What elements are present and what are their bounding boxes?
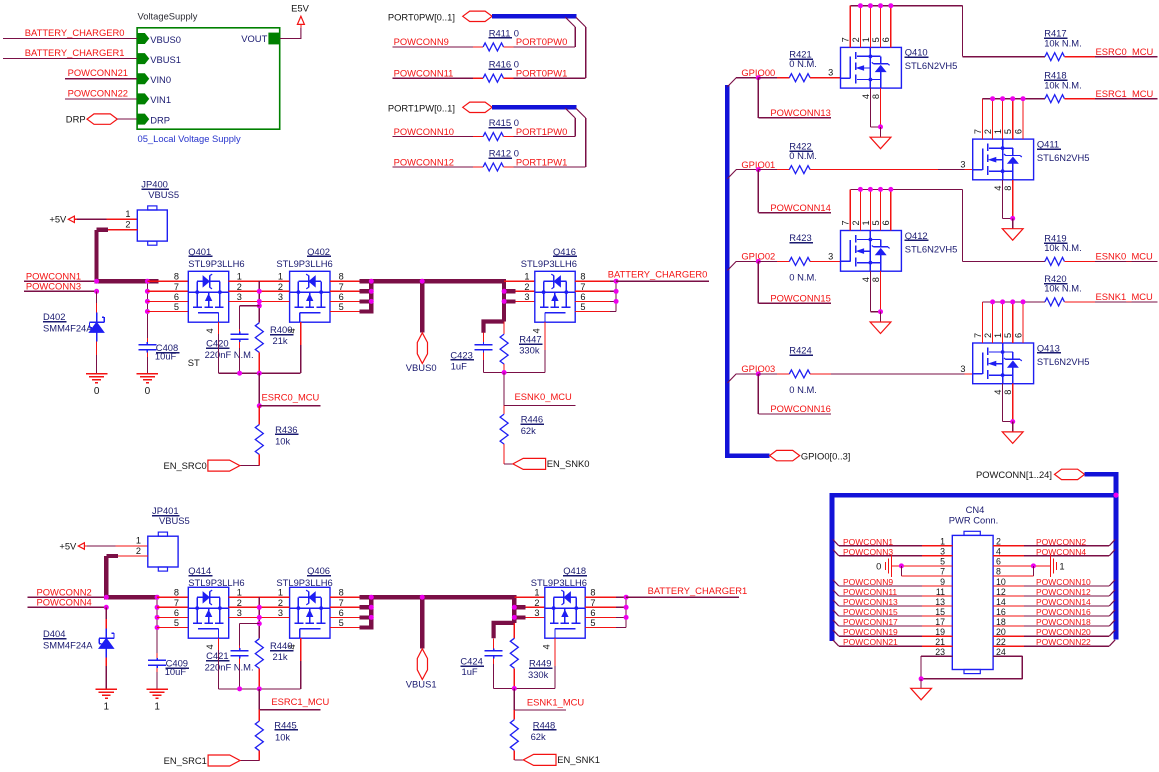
svg-text:3: 3	[237, 292, 242, 302]
svg-text:2: 2	[983, 333, 993, 338]
svg-text:VoltageSupply: VoltageSupply	[138, 11, 198, 22]
wire D402 to ground	[96, 341, 98, 355]
ground 1 under C409	[146, 688, 167, 690]
svg-text:POWCONN3: POWCONN3	[843, 547, 893, 557]
svg-text:20: 20	[996, 627, 1006, 637]
wire BATTERY_CHARGER0 to VBUS0	[3, 38, 137, 40]
svg-text:1: 1	[940, 537, 945, 547]
svg-text:1: 1	[278, 588, 283, 598]
svg-text:21: 21	[935, 637, 945, 647]
junction at source of Q411	[1010, 216, 1015, 221]
junction mid C421 tap	[257, 621, 262, 626]
svg-text:C423: C423	[450, 349, 472, 360]
sink rail ESNK0	[484, 372, 545, 374]
hierarchical block VoltageSupply (05_Local Voltage Supply)	[137, 28, 280, 129]
pins 4 and 8 of Q412	[869, 271, 871, 312]
svg-text:6: 6	[339, 292, 344, 302]
block input pin DRP	[138, 114, 149, 124]
svg-text:2: 2	[278, 598, 283, 608]
svg-text:10uF: 10uF	[165, 666, 187, 677]
pins 4 and 8 of Q410	[869, 88, 871, 127]
wire CN4 pin 9 POWCONN9	[922, 585, 952, 587]
svg-text:17: 17	[935, 617, 945, 627]
svg-text:14: 14	[996, 597, 1006, 607]
svg-text:5: 5	[174, 302, 179, 312]
junction on drain line of Q413	[1021, 299, 1026, 304]
wire column to Q414 pin 8	[157, 596, 188, 598]
wire column to Q414 pin 6	[157, 616, 188, 618]
junction mid pin2 c2	[257, 605, 262, 610]
capacitor C424 1uF	[493, 648, 495, 651]
svg-text:R415: R415	[489, 117, 511, 128]
svg-text:STL9P3LLH6: STL9P3LLH6	[188, 577, 244, 588]
wire BATTERY_CHARGER0	[616, 280, 709, 282]
svg-text:0 N.M.: 0 N.M.	[789, 272, 817, 283]
wire to ESNK1_MCU	[513, 689, 515, 710]
wire column to Q414 pin 5	[157, 627, 188, 629]
svg-text:SMM4F24A: SMM4F24A	[43, 323, 93, 334]
svg-text:2: 2	[996, 537, 1001, 547]
svg-text:POWCONN10: POWCONN10	[1036, 577, 1091, 587]
pin 4 of Q416	[544, 322, 546, 350]
capacitor C421 220nF N.M.	[239, 648, 241, 651]
junction on drain line of Q410	[858, 3, 863, 8]
svg-text:POWCONN13: POWCONN13	[843, 597, 898, 607]
wire ESNK0_MCU	[1064, 260, 1095, 262]
junction output column c2 pin6	[369, 615, 374, 620]
svg-text:2: 2	[125, 220, 130, 230]
svg-text:7: 7	[580, 282, 585, 292]
svg-text:0 N.M.: 0 N.M.	[789, 58, 817, 69]
svg-text:8: 8	[174, 272, 179, 282]
svg-text:10k N.M.: 10k N.M.	[1044, 37, 1082, 48]
wire ESRC1_MCU	[1064, 98, 1095, 100]
junction column row 3	[145, 299, 150, 304]
wire tie 1 to pin 8	[1032, 566, 1034, 576]
bus port PORT1PW[0..1]	[463, 102, 492, 112]
junction POWCONN2 column	[104, 595, 109, 600]
junction Q416 pin2	[502, 289, 507, 294]
pin 4 of Q418	[554, 638, 556, 666]
wire gate rail ESRC1	[219, 688, 301, 690]
power symbol VBUS0	[417, 333, 427, 364]
svg-text:4: 4	[205, 644, 215, 649]
svg-text:R448: R448	[533, 719, 555, 730]
svg-text:6: 6	[996, 557, 1001, 567]
svg-text:D404: D404	[43, 628, 65, 639]
junction on drain line of Q410	[888, 3, 893, 8]
svg-text:16: 16	[996, 607, 1006, 617]
wire CN4 pin 22 POWCONN22	[993, 645, 1024, 647]
svg-text:VBUS5: VBUS5	[148, 189, 179, 200]
power symbol VBUS1	[417, 649, 427, 680]
svg-text:10k N.M.: 10k N.M.	[1044, 283, 1082, 294]
wire CN4 pin 16 POWCONN16	[993, 615, 1024, 617]
thick elbow to C424	[494, 623, 515, 638]
svg-text:STL6N2VH5: STL6N2VH5	[905, 243, 958, 254]
wire column to Q401 pin 8	[147, 280, 188, 282]
port EN_SNK1	[523, 754, 556, 765]
wire CN4 pin 10 POWCONN10	[993, 585, 1024, 587]
svg-text:22: 22	[996, 637, 1006, 647]
ground under CN4	[911, 688, 932, 700]
svg-text:R423: R423	[789, 232, 811, 243]
wire to R445	[258, 710, 260, 721]
wire tie 0 to pin 7	[900, 566, 902, 576]
svg-text:E5V: E5V	[291, 3, 309, 14]
wire ESRC0_MCU	[1064, 56, 1095, 58]
svg-text:6: 6	[590, 608, 595, 618]
wire CN4 pin 20 POWCONN20	[993, 635, 1024, 637]
wire mid node vertical to R400	[258, 281, 260, 323]
svg-text:DRP: DRP	[150, 114, 170, 125]
wire GPIO01 to resistor	[758, 169, 777, 171]
wire POWCONN4	[28, 606, 107, 608]
wires Q414 to Q406 pins 1 2 3	[229, 596, 290, 598]
svg-text:6: 6	[339, 608, 344, 618]
wire CN4 pin 13 POWCONN13	[922, 605, 952, 607]
svg-text:BATTERY_CHARGER1: BATTERY_CHARGER1	[25, 47, 125, 58]
svg-text:10k N.M.: 10k N.M.	[1044, 79, 1082, 90]
svg-text:1: 1	[136, 536, 141, 546]
wires to Q418 pins 2 3	[526, 606, 545, 608]
port EN_SNK0	[513, 458, 546, 469]
wire JP400 pin 2 thick power	[108, 229, 137, 231]
junction on drain line of Q412	[878, 187, 883, 192]
svg-text:10uF: 10uF	[155, 350, 177, 361]
block input pin VIN1	[138, 94, 149, 104]
pins 4 and 8 of Q411	[1002, 180, 1004, 219]
wire ESRC0_MCU	[259, 405, 320, 407]
net tie 1 at CN4 pins 6 8	[1049, 555, 1051, 577]
node GPIO01	[756, 167, 761, 172]
svg-text:3: 3	[534, 608, 539, 618]
svg-text:ESRC0_MCU: ESRC0_MCU	[1096, 46, 1154, 57]
svg-text:Q418: Q418	[563, 565, 586, 576]
svg-text:8: 8	[174, 588, 179, 598]
svg-text:VBUS1: VBUS1	[150, 54, 181, 65]
wires to Q416 pins 2 3	[516, 290, 535, 292]
wire PORT1PW1	[504, 166, 514, 168]
svg-text:POWCONN9: POWCONN9	[843, 577, 893, 587]
wire BATTERY_CHARGER1	[626, 596, 739, 598]
svg-text:330k: 330k	[519, 345, 540, 356]
svg-text:1: 1	[104, 702, 110, 713]
bus PORT1PW[0..1]	[492, 105, 576, 110]
wire rail to ESRC0_MCU	[258, 373, 260, 406]
wire to C423	[483, 333, 485, 343]
junction at source of Q412	[878, 309, 883, 314]
svg-text:POWCONN21: POWCONN21	[843, 637, 898, 647]
svg-text:Q414: Q414	[188, 565, 211, 576]
wire CN4 pin 1 POWCONN1	[922, 545, 952, 547]
wire to Q416 pin1	[504, 280, 535, 282]
wire GPIO00	[736, 77, 758, 79]
svg-text:POWCONN18: POWCONN18	[1036, 617, 1091, 627]
wire to ground of Q411	[1012, 218, 1014, 228]
junction sink rail	[502, 370, 507, 375]
wire POWCONN12	[393, 166, 473, 168]
svg-text:62k: 62k	[521, 425, 536, 436]
svg-text:PORT0PW1: PORT0PW1	[516, 68, 567, 79]
svg-text:POWCONN[1..24]: POWCONN[1..24]	[976, 469, 1052, 480]
svg-text:330k: 330k	[528, 669, 549, 680]
junction tie 1	[1031, 563, 1036, 568]
svg-text:POWCONN22: POWCONN22	[1036, 637, 1091, 647]
svg-text:8: 8	[339, 272, 344, 282]
wire PORT1PW0 vertical	[574, 118, 576, 137]
thick elbow to C423	[484, 322, 505, 333]
svg-text:3: 3	[278, 292, 283, 302]
thick VBUS0 bus wire	[371, 279, 504, 283]
svg-text:3: 3	[960, 364, 965, 374]
bus PORT0PW[0..1]	[492, 14, 576, 19]
pin 4 of Q406	[300, 638, 302, 661]
svg-text:8: 8	[871, 277, 881, 282]
junction mid pin2	[257, 289, 262, 294]
junction bus corner	[1113, 493, 1118, 498]
svg-text:Q410: Q410	[905, 47, 928, 58]
wire GPIO row to pin 3 of Q412	[810, 260, 840, 262]
ground 0 under C408	[137, 373, 158, 375]
svg-text:4: 4	[861, 277, 871, 282]
svg-text:PORT1PW[0..1]: PORT1PW[0..1]	[388, 102, 455, 113]
svg-text:19: 19	[935, 627, 945, 637]
svg-text:PWR Conn.: PWR Conn.	[949, 515, 999, 526]
svg-text:+5V: +5V	[49, 214, 67, 225]
svg-text:STL9P3LLH6: STL9P3LLH6	[276, 258, 332, 269]
svg-text:0: 0	[145, 386, 151, 397]
svg-text:05_Local Voltage Supply: 05_Local Voltage Supply	[138, 133, 242, 144]
wire mid node vertical to R440	[258, 597, 260, 639]
svg-text:4: 4	[287, 644, 297, 649]
svg-text:4: 4	[541, 644, 551, 649]
wire down to D404	[105, 607, 107, 619]
wire POWCONN21 to VIN0	[65, 78, 137, 80]
bus entry PORT0PW1	[576, 17, 586, 27]
wire CN4 pin 24 to ground	[993, 655, 1022, 657]
svg-text:STL6N2VH5: STL6N2VH5	[905, 60, 958, 71]
bus entry GPIO01	[727, 170, 736, 179]
transistor Q412 STL6N2VH5	[841, 231, 902, 272]
svg-text:PORT0PW0: PORT0PW0	[516, 36, 567, 47]
svg-text:8: 8	[871, 94, 881, 99]
bus entry POWCONN17 left	[833, 620, 839, 626]
svg-text:4: 4	[531, 328, 541, 333]
wire to ground of Q410	[880, 127, 882, 137]
svg-text:Q402: Q402	[307, 246, 330, 257]
svg-text:1: 1	[125, 209, 130, 219]
svg-text:POWCONN15: POWCONN15	[843, 607, 898, 617]
wire VBUS1 branch thick	[420, 597, 424, 648]
svg-text:10k: 10k	[275, 435, 290, 446]
wire GPIO03 to resistor	[758, 373, 777, 375]
svg-text:2: 2	[851, 220, 861, 225]
svg-text:C424: C424	[460, 656, 482, 667]
junction at source of Q410	[878, 124, 883, 129]
svg-text:2: 2	[534, 598, 539, 608]
wire GPIO03	[736, 373, 758, 375]
wire BATTERY_CHARGER1 to VBUS1	[3, 58, 137, 60]
node GPIO02	[756, 259, 761, 264]
bus POWCONN right segment	[1085, 472, 1116, 477]
top pin stubs of Q412	[849, 189, 851, 230]
wires Q406 to output column thick	[330, 596, 360, 598]
svg-text:1uF: 1uF	[451, 360, 467, 371]
svg-text:0 N.M.: 0 N.M.	[789, 150, 817, 161]
junction Q418 pin2	[512, 605, 517, 610]
wire C421 elbow	[240, 623, 260, 625]
bus entry POWCONN12 right	[1109, 590, 1115, 596]
svg-text:0: 0	[94, 386, 100, 397]
svg-text:C421: C421	[206, 650, 228, 661]
drain line of Q412	[850, 188, 962, 190]
svg-text:1: 1	[237, 588, 242, 598]
junction BC1 pin8	[624, 595, 629, 600]
wire rail to ESRC1_MCU	[258, 689, 260, 710]
svg-text:2: 2	[524, 282, 529, 292]
svg-text:6: 6	[1013, 333, 1023, 338]
svg-text:R411: R411	[489, 27, 511, 38]
svg-text:PORT0PW[0..1]: PORT0PW[0..1]	[388, 11, 455, 22]
svg-text:1: 1	[534, 588, 539, 598]
wire C423 to rail	[483, 352, 485, 360]
svg-text:6: 6	[174, 608, 179, 618]
junction Q416 pin3	[502, 299, 507, 304]
svg-text:1: 1	[524, 272, 529, 282]
bus port POWCONN[1..24]	[1055, 469, 1085, 479]
svg-text:EN_SNK0: EN_SNK0	[547, 458, 590, 469]
bus entry POWCONN16 right	[1109, 610, 1115, 616]
junction output column pin7	[369, 289, 374, 294]
wire CN4 pin 17 POWCONN17	[922, 625, 952, 627]
svg-text:POWCONN19: POWCONN19	[843, 627, 898, 637]
top pin stubs of Q413	[982, 302, 984, 343]
wire CN4 pin 3 POWCONN3	[922, 555, 952, 557]
bus POWCONN left segment	[830, 495, 835, 641]
svg-text:1: 1	[993, 333, 1003, 338]
wire POWCONN2	[28, 596, 107, 598]
pin 4 of Q402	[300, 322, 302, 345]
svg-text:Q416: Q416	[553, 246, 576, 257]
transistor Q410 STL6N2VH5	[841, 47, 902, 88]
bus entry POWCONN22 right	[1109, 640, 1115, 646]
svg-text:1: 1	[1059, 560, 1064, 571]
svg-text:EN_SRC1: EN_SRC1	[164, 755, 207, 766]
svg-text:SMM4F24A: SMM4F24A	[43, 640, 93, 651]
drain line of Q411	[983, 98, 1045, 100]
wire C420 elbow	[240, 305, 260, 307]
wire D404 to ground	[105, 657, 107, 666]
junction on drain line of Q411	[1010, 96, 1015, 101]
svg-text:4: 4	[996, 547, 1001, 557]
svg-text:1: 1	[278, 272, 283, 282]
junction column2 row 4	[155, 625, 160, 630]
svg-text:5: 5	[1003, 129, 1013, 134]
bus GPIO0[0..3]	[725, 85, 730, 456]
bus entry POWCONN4 right	[1109, 549, 1115, 555]
wire CN4 pin 23 to ground	[921, 655, 952, 657]
bus entry GPIO03	[727, 374, 736, 383]
svg-text:+5V: +5V	[59, 540, 77, 551]
svg-text:1: 1	[993, 129, 1003, 134]
svg-text:2: 2	[237, 598, 242, 608]
wire CN4 pin 15 POWCONN15	[922, 615, 952, 617]
wire drain line elbow to R417	[962, 6, 964, 57]
svg-text:R424: R424	[789, 345, 811, 356]
wire CN4 pin 18 POWCONN18	[993, 625, 1024, 627]
wire ESRC1_MCU	[259, 709, 320, 711]
junction column row 4	[145, 309, 150, 314]
bus entry POWCONN13 left	[833, 600, 839, 606]
svg-text:2: 2	[851, 37, 861, 42]
svg-text:R449: R449	[529, 658, 551, 669]
svg-text:7: 7	[174, 282, 179, 292]
svg-text:POWCONN16: POWCONN16	[770, 403, 830, 414]
svg-text:2: 2	[237, 282, 242, 292]
thick VBUS1 bus wire	[371, 595, 514, 599]
wire CN4 pin 14 POWCONN14	[993, 605, 1024, 607]
thick elbow into Q416	[502, 279, 506, 321]
svg-text:7: 7	[339, 598, 344, 608]
ground 1 under D404	[96, 688, 117, 690]
svg-text:C420: C420	[206, 338, 228, 349]
svg-text:3: 3	[237, 608, 242, 618]
junction on drain line of Q412	[868, 187, 873, 192]
wire GPIO02	[736, 260, 758, 262]
capacitor C408 10uF	[146, 342, 148, 345]
wires Q401 to Q402 pins 1 2 3	[229, 280, 290, 282]
svg-text:7: 7	[590, 598, 595, 608]
block input pin VBUS0	[138, 34, 149, 44]
wire column to C409	[156, 653, 158, 658]
svg-text:2: 2	[983, 129, 993, 134]
svg-text:POWCONN1: POWCONN1	[843, 537, 893, 547]
wires Q418 to BATTERY_CHARGER1	[585, 596, 616, 598]
svg-text:4: 4	[205, 328, 215, 333]
svg-text:ESNK1_MCU: ESNK1_MCU	[527, 696, 585, 707]
junction on drain line of Q410	[878, 3, 883, 8]
junction Q418 pin3	[512, 615, 517, 620]
svg-text:VIN0: VIN0	[150, 74, 171, 85]
bus entry POWCONN10 right	[1109, 580, 1115, 586]
junction on drain line of Q413	[990, 299, 995, 304]
wire column to C408	[146, 338, 148, 342]
wire CN4 pin 4 POWCONN4	[993, 555, 1024, 557]
svg-text:2: 2	[136, 546, 141, 556]
capacitor C420 220nF N.M.	[239, 332, 241, 335]
ground below Q412	[870, 322, 891, 334]
port EN_SRC0	[208, 460, 240, 471]
ground below Q413	[1002, 432, 1023, 444]
wire POWCONN11	[393, 77, 473, 79]
svg-text:POWCONN12: POWCONN12	[1036, 587, 1091, 597]
wire POWCONN16 branch	[757, 374, 759, 414]
svg-text:ESNK1_MCU: ESNK1_MCU	[1096, 291, 1154, 302]
bus entry GPIO00	[727, 78, 736, 87]
svg-text:EN_SNK1: EN_SNK1	[557, 754, 600, 765]
bus entry POWCONN19 left	[833, 630, 839, 636]
svg-text:5: 5	[1003, 333, 1013, 338]
svg-text:Q411: Q411	[1037, 138, 1059, 149]
wire R440 to rail	[258, 669, 260, 689]
wire GPIO01	[736, 169, 758, 171]
wire C420 to rail	[239, 342, 241, 348]
bus entry POWCONN9 left	[833, 580, 839, 586]
svg-text:POWCONN22: POWCONN22	[68, 87, 128, 98]
svg-text:7: 7	[940, 567, 945, 577]
block input pin VBUS1	[138, 54, 149, 64]
